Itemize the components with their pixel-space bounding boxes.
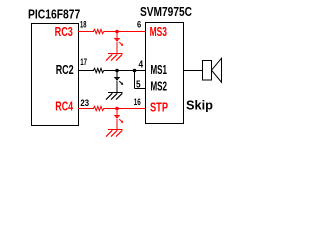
junction node row2 [115, 69, 119, 73]
svg-text:MS3: MS3 [150, 25, 167, 39]
wire RC2 to resistor [78, 70, 94, 72]
wire U2 output to speaker [184, 70, 203, 72]
wire resistor to MS1 [104, 70, 146, 72]
svg-text:4: 4 [139, 59, 144, 71]
svg-text:RC3: RC3 [55, 25, 73, 39]
wire LED D2 to ground [116, 81, 118, 93]
wire junction to LED D3 [116, 109, 118, 116]
svg-text:18: 18 [80, 20, 86, 31]
svg-text:Skip: Skip [186, 98, 213, 112]
wire to MS2 pin 5 [135, 88, 146, 90]
svg-text:RC2: RC2 [56, 63, 74, 77]
svg-text:STP: STP [150, 100, 168, 114]
wire junction to LED D1 [116, 32, 118, 39]
IC U2 SVM7975C body [146, 23, 184, 124]
svg-text:MS2: MS2 [151, 80, 168, 94]
junction node row3 [115, 107, 119, 111]
svg-text:23: 23 [80, 98, 89, 109]
ground GND1 [106, 54, 123, 61]
wire RC4 to resistor [78, 108, 94, 110]
svg-text:PIC16F877: PIC16F877 [28, 7, 80, 21]
junction node MS1/MS2 [133, 69, 137, 73]
wire RC3 to resistor [78, 31, 94, 33]
net RC2-MS1/MS2 (black) [78, 68, 146, 92]
svg-text:RC4: RC4 [55, 100, 73, 114]
wire resistor to STP [104, 108, 146, 110]
wire resistor to MS3 [104, 31, 146, 33]
wire LED D1 to ground [116, 42, 118, 54]
wire LED D3 to ground [116, 119, 118, 130]
IC U1 PIC16F877 body [32, 24, 79, 126]
LED D2 [114, 77, 123, 85]
svg-text:17: 17 [80, 57, 87, 68]
svg-text:SVM7975C: SVM7975C [140, 5, 192, 19]
LED D3 [114, 115, 123, 123]
resistor R2 [93, 68, 104, 72]
wire junction to LED D2 [116, 71, 118, 78]
svg-text:6: 6 [137, 19, 141, 30]
ground GND2 [106, 93, 123, 100]
resistor R3 [93, 106, 104, 110]
LED D1 [114, 38, 123, 46]
net RC4-STP (red) [78, 106, 146, 129]
speaker SP1 [203, 58, 222, 82]
net RC3-MS3 (red) [78, 29, 146, 53]
junction node row1 [115, 30, 119, 34]
svg-text:MS1: MS1 [151, 63, 168, 77]
resistor R1 [93, 29, 104, 33]
ground GND3 [106, 130, 123, 137]
svg-text:16: 16 [134, 97, 141, 108]
wire MS1 junction down to MS2 [134, 71, 136, 89]
